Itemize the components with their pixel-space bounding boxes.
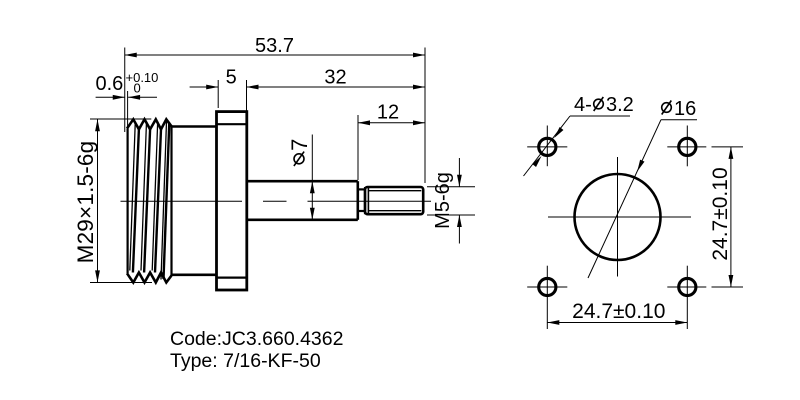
svg-text:53.7: 53.7 xyxy=(255,35,294,57)
dim M29x1.5-6g xyxy=(73,119,100,282)
thread M29 section xyxy=(127,119,172,282)
dim 5 (arrows outside) xyxy=(190,67,237,90)
dim 0.6 +0.10/0 (arrows outside) xyxy=(96,70,159,100)
svg-text:24.7±0.10: 24.7±0.10 xyxy=(709,167,732,260)
extension line: 0.6 chamfer xyxy=(127,91,129,128)
phi symbol drawn xyxy=(294,152,304,166)
extension line: flange right xyxy=(246,80,248,111)
centerline xyxy=(121,200,432,202)
svg-text:Type: 7/16-KF-50: Type: 7/16-KF-50 xyxy=(170,350,321,372)
dim 24.7 horizontal (bottom) xyxy=(547,300,687,325)
extension line: M5 bottom xyxy=(427,214,475,216)
svg-text:M5-6g: M5-6g xyxy=(432,172,454,229)
dia16 leader xyxy=(588,98,697,278)
thread flank lines (thick) xyxy=(133,129,139,272)
svg-text:Code:JC3.660.4362: Code:JC3.660.4362 xyxy=(170,328,343,350)
flange xyxy=(217,112,247,290)
thread crest zigzag bottom xyxy=(127,273,172,283)
extension line: right end xyxy=(424,48,426,184)
4-dia3.2 label and leader xyxy=(524,94,634,176)
extension line: M5 top xyxy=(427,186,475,188)
svg-text:3.2: 3.2 xyxy=(606,94,634,116)
dim 53.7 xyxy=(125,35,425,57)
extension line: M29 top xyxy=(90,118,151,120)
extension line: left face xyxy=(124,48,126,133)
thread right end edge xyxy=(170,126,172,275)
dim 32 xyxy=(247,67,426,90)
svg-text:24.7±0.10: 24.7±0.10 xyxy=(572,300,665,323)
big circle xyxy=(575,174,661,260)
svg-text:16: 16 xyxy=(674,98,696,120)
dim 24.7 vertical (right) xyxy=(709,147,743,287)
neck groove xyxy=(358,187,365,214)
svg-text:4-: 4- xyxy=(574,94,592,116)
svg-text:32: 32 xyxy=(324,67,346,89)
extension line: shaft shoulder xyxy=(357,115,359,180)
extension line: flange left xyxy=(217,80,219,108)
svg-text:+0.10: +0.10 xyxy=(126,70,159,85)
M5 threaded stud xyxy=(365,187,423,214)
crosshair center lines xyxy=(548,157,691,277)
holes 4x dia3.2 xyxy=(539,138,696,295)
body between thread and flange xyxy=(172,127,217,275)
thread left chamfer edge xyxy=(126,129,128,274)
svg-text:12: 12 xyxy=(377,102,399,124)
svg-text:7: 7 xyxy=(287,139,312,151)
svg-text:5: 5 xyxy=(226,67,237,89)
dim 12 xyxy=(358,102,425,126)
svg-text:M29×1.5-6g: M29×1.5-6g xyxy=(73,141,98,264)
thread flank lines (thin) xyxy=(130,122,136,271)
hole crosshairs xyxy=(527,126,706,330)
thread crest zigzag top xyxy=(127,119,172,129)
shaft dia 7 xyxy=(247,181,358,220)
extension line: M29 bottom xyxy=(90,282,152,284)
dim dia7 xyxy=(287,135,315,220)
svg-text:0: 0 xyxy=(134,81,141,96)
dim M5-6g (arrows outside) xyxy=(432,158,462,244)
svg-text:0.6: 0.6 xyxy=(96,73,124,95)
